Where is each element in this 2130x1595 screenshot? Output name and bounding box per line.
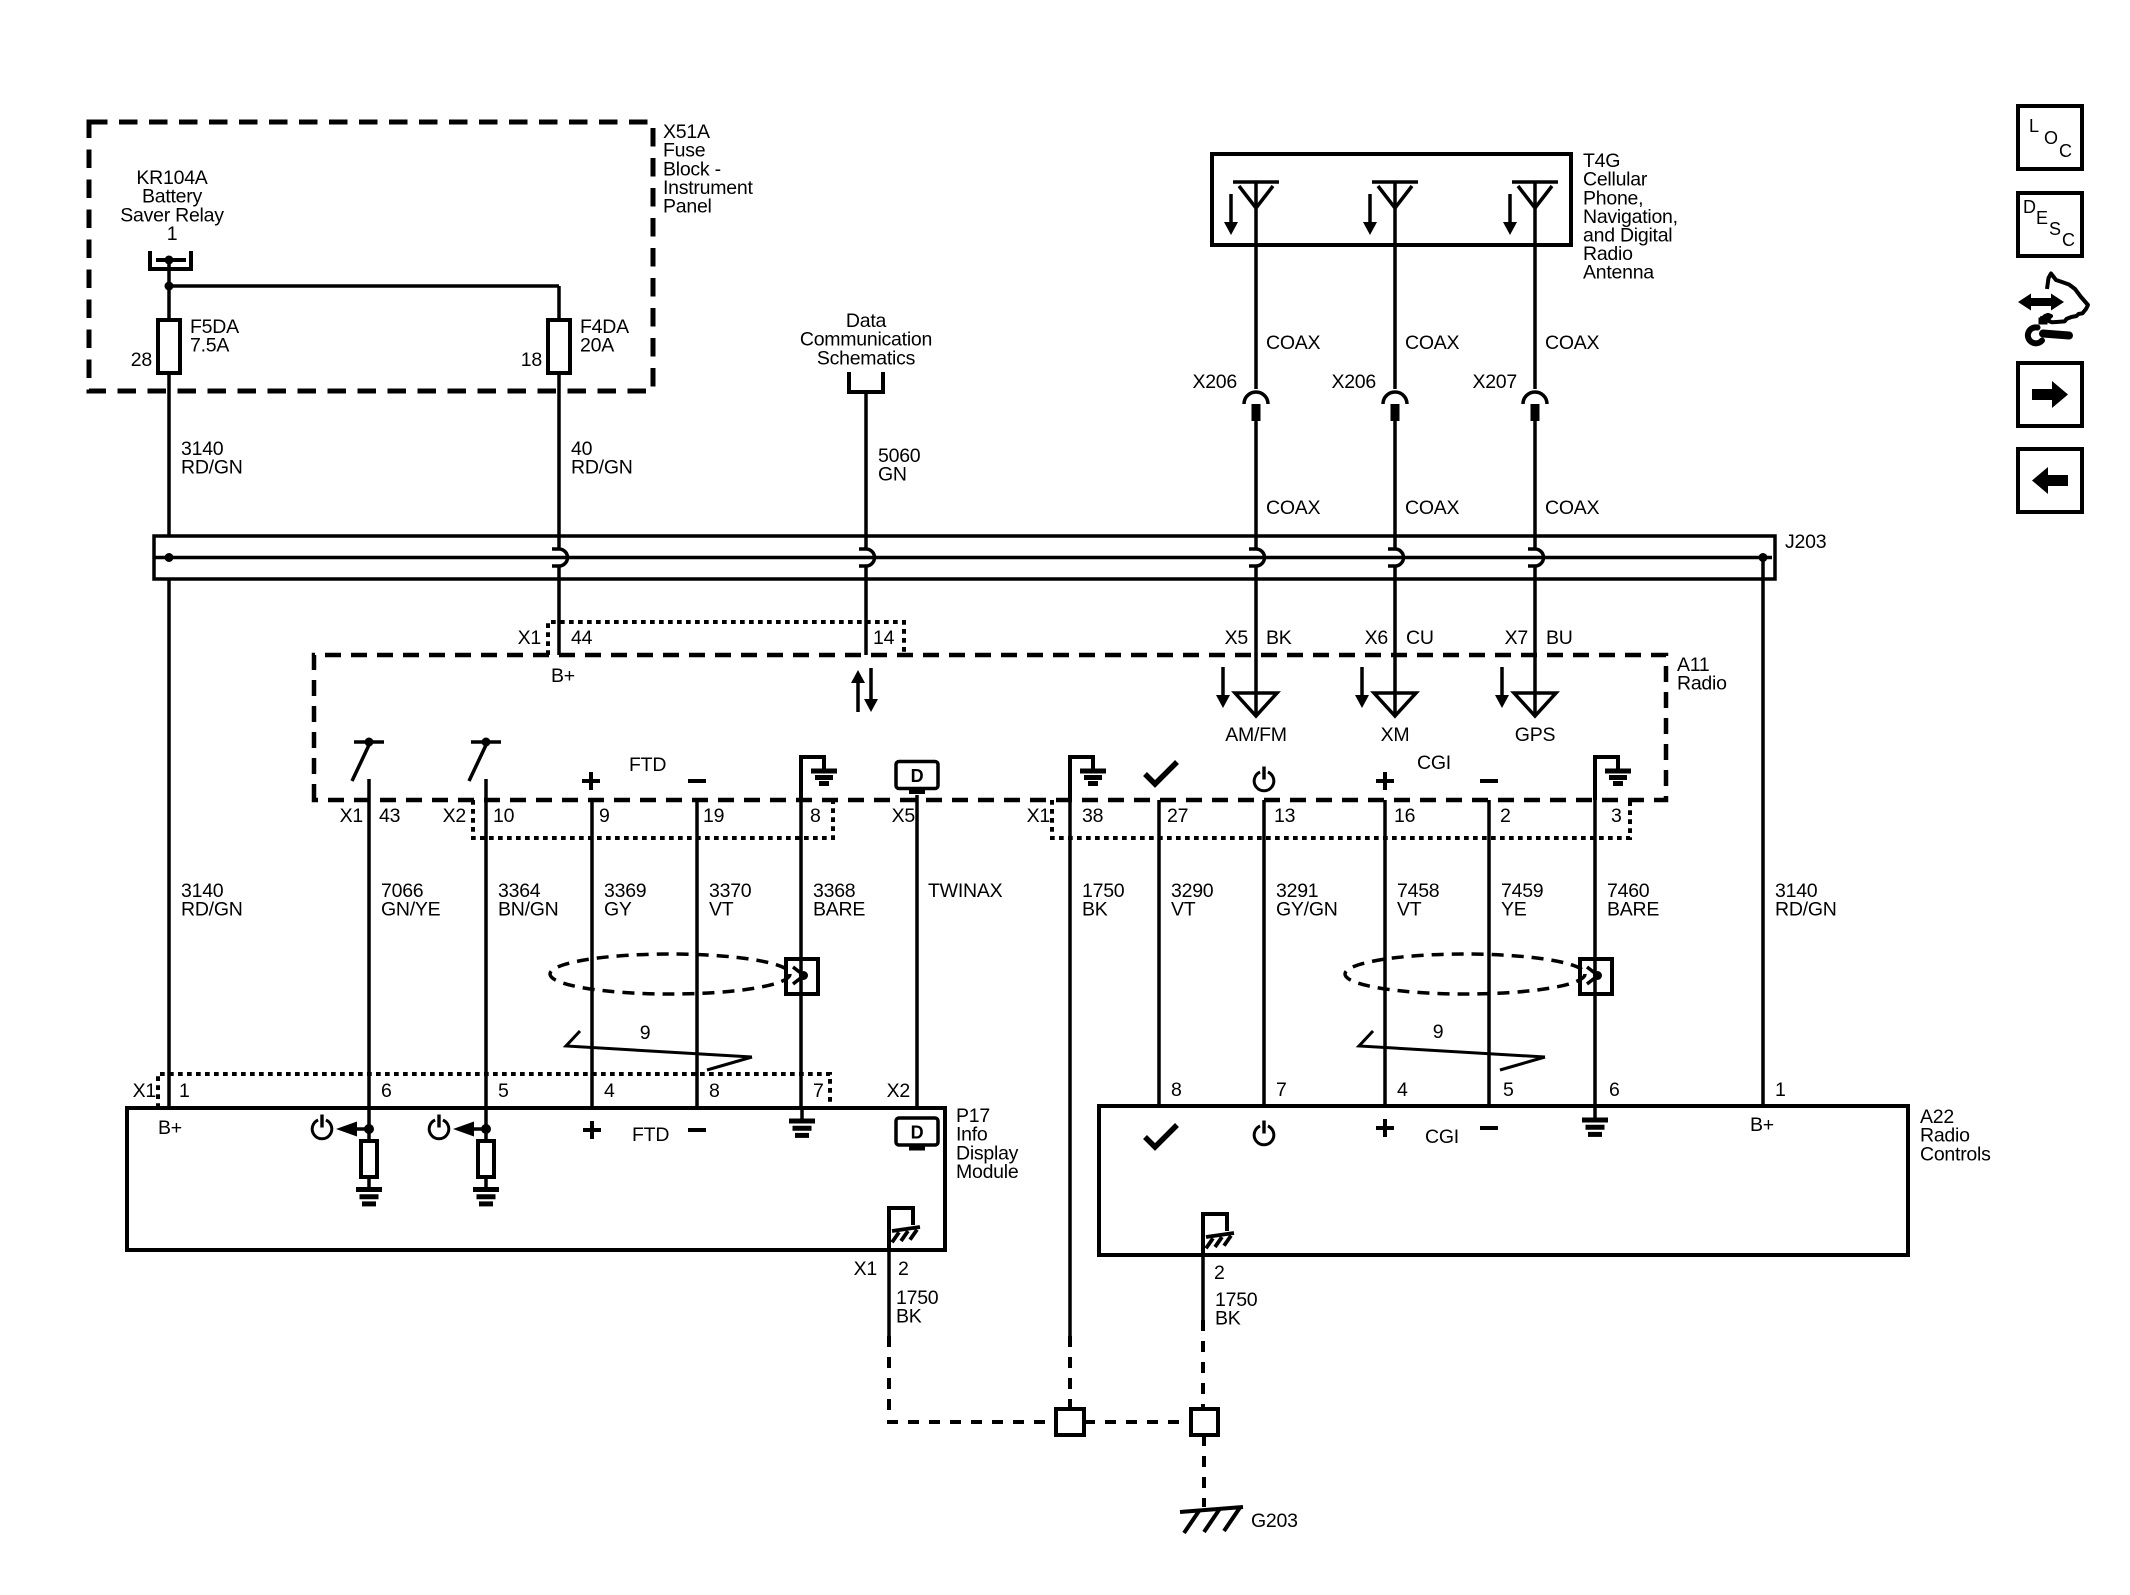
svg-text:16: 16 [1394,805,1415,827]
svg-text:GPS: GPS [1515,724,1556,746]
wire 3140 RD/GN J203 to P17 B+ [167,579,171,1108]
pin 6 label A22 [1609,1079,1620,1101]
svg-text:Controls: Controls [1920,1143,1991,1165]
fuse F5DA 7.5A [158,316,239,373]
GPS down-arrow [1495,667,1509,708]
antenna symbol 3 in T4G [1512,182,1558,208]
svg-text:O: O [2044,128,2058,148]
svg-text:1: 1 [167,223,178,245]
wire hop over J203 at coax3 [1528,549,1544,566]
svg-text:YE: YE [1501,899,1527,921]
svg-text:X5: X5 [892,805,916,827]
connector X206 label 1 [1192,371,1237,393]
pin 2 label A11 [1500,805,1511,827]
wire J203 to A11 pin 44 [557,536,561,655]
antenna 2 signal down-arrow [1363,194,1377,235]
label COAX upper 2 [1405,332,1460,354]
label Data Communication Schematics [800,310,932,369]
wire J203 to A11 pin 14 [864,536,868,655]
svg-text:Radio: Radio [1677,673,1727,695]
power symbol A22 pin 7 [1254,1121,1274,1145]
pin 27 label [1167,805,1188,827]
minus symbol FTD at A11 pin 19 [688,779,706,783]
label 3291 GY/GN [1276,880,1338,921]
node J203 left junction [165,553,174,562]
label 7066 GN/YE [381,880,441,921]
svg-text:6: 6 [1609,1079,1620,1101]
svg-text:10: 10 [493,805,515,827]
svg-text:S: S [2049,219,2061,239]
power symbol at A11 pin 13 [1254,767,1274,791]
label A11 Radio [1677,654,1727,695]
AM/FM down-arrow [1216,667,1230,708]
svg-text:D: D [911,1123,924,1143]
wire hop over J203 at 40 RD/GN [552,549,568,566]
label CGI in A11 [1417,752,1451,774]
label 3369 GY [604,880,646,921]
label CGI A22 [1425,1126,1459,1148]
arrow into pin 6 wire [336,1122,374,1137]
arrow into pin 5 wire [453,1122,491,1137]
twist count 9 FTD [566,1022,752,1070]
svg-text:COAX: COAX [1545,332,1600,354]
svg-text:4: 4 [604,1080,615,1102]
XM antenna input symbol [1374,693,1416,716]
svg-text:X207: X207 [1472,371,1517,393]
label GPS [1515,724,1556,746]
svg-text:CGI: CGI [1417,752,1451,774]
svg-text:J203: J203 [1785,531,1826,553]
icon button back arrow [2018,449,2082,512]
label FTD P17 [632,1124,669,1146]
check symbol at A11 pin 27 [1145,762,1177,784]
svg-text:X1: X1 [854,1258,877,1280]
pin 3 label A11 [1611,805,1622,827]
label X7 BU [1505,627,1573,649]
svg-text:RD/GN: RD/GN [1775,899,1837,921]
svg-text:TWINAX: TWINAX [928,880,1003,902]
wire resistor to ground pin 6 [367,1177,371,1189]
wire 7460 BARE [1593,800,1597,1106]
svg-text:XM: XM [1381,724,1410,746]
svg-text:Panel: Panel [663,196,712,218]
svg-text:B+: B+ [1750,1114,1774,1136]
minus symbol CGI at A11 pin 2 [1480,779,1498,783]
pin 1 label A22 [1775,1079,1786,1101]
coax wire J203 to GPS antenna input [1533,536,1537,716]
label B+ A22 [1750,1114,1774,1136]
svg-text:18: 18 [521,349,542,371]
svg-text:38: 38 [1082,805,1103,827]
svg-text:5: 5 [498,1080,509,1102]
label P17 Info Display Module [956,1105,1019,1183]
svg-text:VT: VT [1397,899,1422,921]
label J203 [1785,531,1826,553]
svg-text:X1: X1 [340,805,363,827]
label A22 Radio Controls [1920,1106,1991,1165]
label 1750 BK below A22 [1215,1289,1258,1330]
svg-text:COAX: COAX [1405,497,1460,519]
svg-text:CGI: CGI [1425,1126,1459,1148]
svg-text:6: 6 [381,1080,392,1102]
ground under resistor pin 6 [356,1190,382,1204]
label 7460 BARE [1607,880,1659,921]
pin 7 label P17 [813,1080,824,1102]
label FTD in A11 [629,754,666,776]
pin 7 label A22 [1276,1079,1287,1101]
svg-text:Module: Module [956,1161,1018,1183]
label X1 pin 43 [340,805,401,827]
svg-text:VT: VT [1171,899,1196,921]
svg-text:7.5A: 7.5A [190,335,229,357]
wire J203 to A22 B+ (3140 RD/GN) [1761,558,1765,1107]
icon button LOC [2018,106,2082,169]
chassis ground inside P17 [889,1208,920,1250]
svg-text:5: 5 [1503,1079,1514,1101]
label X2 P17 [887,1080,910,1102]
pin 5 label A22 [1503,1079,1514,1101]
svg-text:RD/GN: RD/GN [181,457,243,479]
radio A11 dashed outline [314,655,1666,800]
coax wire connector to J203 1 [1254,421,1258,536]
coax wire connector to J203 3 [1533,421,1537,536]
wire 3290 VT [1157,800,1161,1106]
wire pin 6 stub A22 [1593,1106,1597,1119]
antenna 3 signal down-arrow [1503,194,1517,235]
shield termination box FTD [786,959,818,994]
svg-text:14: 14 [873,627,895,649]
coax wire antenna 1 to connector [1254,182,1258,389]
minus symbol FTD P17 [688,1128,706,1132]
label X1 2 below P17 [854,1258,909,1280]
svg-text:G203: G203 [1251,1510,1298,1532]
connector X206 symbol 2 [1383,392,1407,421]
wire junction to F5DA [167,286,171,320]
wire pin 5 to resistor [484,1108,488,1141]
svg-text:13: 13 [1274,805,1295,827]
label 5060 GN [878,445,921,486]
label AM/FM [1225,724,1287,746]
svg-text:X1: X1 [1027,805,1050,827]
ground symbol at A11 pin 8 [801,757,837,800]
power symbol P17 pin 6 [312,1115,332,1139]
chassis ground inside A22 [1203,1214,1234,1255]
label 7459 YE [1501,880,1543,921]
dashed wire splice S2 to G203 [1202,1435,1206,1507]
check symbol A22 pin 8 [1145,1125,1177,1147]
svg-text:X2: X2 [443,805,466,827]
icon button next arrow [2018,363,2082,426]
pin 1 label P17 [179,1080,190,1102]
label X1 P17 [133,1080,156,1102]
svg-text:X6: X6 [1365,627,1388,649]
label COAX upper 1 [1266,332,1321,354]
svg-text:C: C [2062,230,2075,250]
antenna symbol 2 in T4G [1372,182,1418,208]
label 1750 BK below P17 [896,1287,939,1328]
svg-text:L: L [2029,116,2039,136]
svg-text:Antenna: Antenna [1583,262,1654,284]
switch symbol at A11 pin 10 [469,738,501,782]
svg-text:BU: BU [1546,627,1573,649]
coax wire antenna 2 to connector [1393,182,1397,389]
pin 4 label A22 [1397,1079,1408,1101]
label 3140 RD/GN lower left [181,880,243,921]
wire 7458 VT [1383,800,1387,1106]
pin 8 label A11 [810,805,821,827]
twisted pair ellipse CGI [1345,954,1585,994]
GPS antenna input symbol [1514,693,1556,716]
pin 9 label [599,805,610,827]
wire resistor to ground pin 5 [484,1177,488,1189]
svg-text:BK: BK [896,1306,922,1328]
ground at P17 pin 7 [789,1121,815,1135]
svg-text:B+: B+ [158,1117,182,1139]
svg-text:2: 2 [1500,805,1511,827]
plus symbol CGI A22 [1376,1119,1394,1137]
ground G203 symbol [1180,1507,1243,1533]
relay KR104A contact [150,251,191,269]
pin 14 label [873,627,895,649]
pin 19 label [703,805,724,827]
label 1750 BK left [1082,880,1125,921]
wire 3369 GY [590,800,594,1108]
fuse F4DA 20A [548,316,629,373]
svg-text:9: 9 [640,1022,651,1044]
svg-text:X206: X206 [1192,371,1237,393]
ground symbol at A11 pin 3 [1595,757,1631,800]
wire hop over J203 at 5060 GN [859,549,875,566]
svg-text:RD/GN: RD/GN [181,899,243,921]
svg-text:D: D [2023,197,2036,217]
wire 7459 YE [1487,800,1491,1106]
label X5 bottom [892,805,916,827]
svg-text:7: 7 [1276,1079,1287,1101]
svg-text:VT: VT [709,899,734,921]
label X1 pin 38 [1027,805,1104,827]
pin 6 label P17 [381,1080,392,1102]
pin 44 label [571,627,593,649]
antenna module T4G box [1212,154,1571,245]
svg-text:20A: 20A [580,335,614,357]
wire 1750 BK from P17 [889,1250,1056,1422]
svg-text:19: 19 [703,805,724,827]
pin 16 label [1394,805,1415,827]
label COAX upper 3 [1545,332,1600,354]
plus symbol FTD P17 [583,1121,601,1139]
svg-text:FTD: FTD [632,1124,669,1146]
shield termination box CGI [1580,959,1612,994]
label COAX lower 2 [1405,497,1460,519]
wire 40 RD/GN fuse F4DA to J203 [557,373,561,536]
plus symbol CGI at A11 pin 16 [1376,772,1394,790]
XM down-arrow [1355,667,1369,708]
ground under resistor pin 5 [473,1190,499,1204]
connector X207 symbol [1523,392,1547,421]
label B+ P17 [158,1117,182,1139]
connector X207 label [1472,371,1517,393]
splice S1 [1056,1409,1084,1435]
fuse block X51A dashed outline [89,122,653,391]
svg-text:1: 1 [1775,1079,1786,1101]
label 3368 BARE [813,880,865,921]
coax wire J203 to AM/FM antenna input [1254,536,1258,716]
svg-text:1: 1 [179,1080,190,1102]
label 40 RD/GN [571,438,633,479]
connector strip A11 X1 bottom [1052,800,1630,838]
svg-text:X1: X1 [518,627,541,649]
label TWINAX [928,880,1003,902]
wire relay to junction [167,260,171,286]
AM/FM antenna input symbol [1235,693,1277,716]
wire 3140 RD/GN fuse F5DA to J203 [167,373,171,536]
label T4G Cellular Phone Navigation and Digital Radio Antenna [1583,150,1678,284]
svg-text:43: 43 [379,805,400,827]
svg-text:FTD: FTD [629,754,666,776]
wire TWINAX [915,795,919,1108]
wire 3368 BARE [799,800,803,1108]
svg-text:X2: X2 [887,1080,910,1102]
node J203 right junction [1759,553,1768,562]
dashed wire splice S1 to splice S2 [1084,1420,1191,1424]
svg-text:BK: BK [1266,627,1292,649]
label 3290 VT [1171,880,1214,921]
pin 2 label below A22 [1214,1262,1225,1284]
pin 18 label [521,349,542,371]
svg-text:8: 8 [810,805,821,827]
harness J203 internal wire [154,556,1772,560]
svg-text:GN/YE: GN/YE [381,899,441,921]
wire 1750 BK from A11 pin 38 [1068,800,1072,1409]
label X51A Fuse Block - Instrument Panel [663,121,753,217]
svg-text:2: 2 [898,1258,909,1280]
connector strip A11 X2 bottom [473,800,833,838]
ground at A22 pin 6 [1582,1120,1608,1134]
svg-text:X5: X5 [1225,627,1249,649]
wire hop over J203 at coax2 [1388,549,1404,566]
antenna symbol 1 in T4G [1233,182,1279,208]
harness J203 outline [154,536,1775,579]
svg-text:BARE: BARE [1607,899,1659,921]
wire pin 7 stub [800,1108,804,1120]
wire 3291 GY/GN [1262,800,1266,1106]
svg-text:X206: X206 [1331,371,1376,393]
twisted pair ellipse FTD [550,954,790,994]
svg-text:E: E [2036,208,2048,228]
pin 5 label P17 [498,1080,509,1102]
minus symbol CGI A22 [1480,1126,1498,1130]
display icon P17 X2 [896,1118,938,1149]
off-page connector Data Communication [849,372,883,392]
label XM [1381,724,1410,746]
ground symbol at A11 pin 38 [1070,757,1106,800]
label B+ A11 [551,665,575,687]
svg-text:GY/GN: GY/GN [1276,899,1338,921]
svg-text:RD/GN: RD/GN [571,457,633,479]
svg-text:X7: X7 [1505,627,1528,649]
svg-text:9: 9 [1433,1021,1444,1043]
wire 3370 VT [695,800,699,1108]
switch symbol at A11 pin 43 [352,738,384,782]
label COAX lower 1 [1266,497,1321,519]
svg-text:44: 44 [571,627,593,649]
serial data up/down arrows at pin 14 [851,668,878,712]
svg-text:BK: BK [1082,899,1108,921]
svg-text:BN/GN: BN/GN [498,899,559,921]
power symbol P17 pin 5 [429,1115,449,1139]
svg-text:COAX: COAX [1266,332,1321,354]
label X5 BK [1225,627,1292,649]
pin 8 label A22 [1171,1079,1182,1101]
coax wire J203 to XM antenna input [1393,536,1397,716]
svg-text:27: 27 [1167,805,1188,827]
wire 5060 GN to J203 [864,392,868,536]
icon button DESC [2018,193,2082,256]
svg-text:8: 8 [709,1080,720,1102]
pin 4 label P17 [604,1080,615,1102]
svg-text:GN: GN [878,464,907,486]
label X1 top [518,627,541,649]
icon double-arrow with part and wrench [2018,274,2088,344]
svg-text:Schematics: Schematics [817,347,916,369]
splice S2 [1191,1409,1218,1435]
relay KR104A label [120,167,224,245]
label G203 [1251,1510,1298,1532]
label 3370 VT [709,880,752,921]
module A22 box [1099,1106,1908,1255]
label 3140 RD/GN right [1775,880,1837,921]
svg-text:4: 4 [1397,1079,1408,1101]
svg-text:COAX: COAX [1545,497,1600,519]
svg-text:2: 2 [1214,1262,1225,1284]
label 3364 BN/GN [498,880,559,921]
label 7458 VT [1397,880,1439,921]
svg-text:B+: B+ [551,665,575,687]
svg-text:CU: CU [1406,627,1434,649]
twist count 9 CGI [1359,1021,1545,1070]
pin 13 label [1274,805,1295,827]
antenna 1 signal down-arrow [1224,194,1238,235]
svg-text:BARE: BARE [813,899,865,921]
svg-text:D: D [911,766,924,786]
svg-text:3: 3 [1611,805,1622,827]
node junction below relay [165,282,174,291]
label 3140 RD/GN [181,438,243,479]
svg-text:GY: GY [604,899,632,921]
plus symbol FTD at A11 pin 9 [582,772,600,790]
module P17 box [127,1108,945,1250]
connector strip P17 X1 [158,1074,830,1108]
coax wire antenna 3 to connector [1533,182,1537,389]
label X2 pin 10 [443,805,515,827]
svg-text:9: 9 [599,805,610,827]
svg-text:7: 7 [813,1080,824,1102]
svg-text:28: 28 [131,349,152,371]
wire hop over J203 at coax1 [1249,549,1265,566]
wire pin 6 to resistor [367,1108,371,1141]
svg-text:X1: X1 [133,1080,156,1102]
wire 1750 BK from A22 [1201,1255,1205,1409]
connector X206 label 2 [1331,371,1376,393]
svg-text:AM/FM: AM/FM [1225,724,1287,746]
svg-text:COAX: COAX [1405,332,1460,354]
svg-text:COAX: COAX [1266,497,1321,519]
wire 3364 BN/GN [484,779,488,1108]
label X6 CU [1365,627,1434,649]
wire junction to F4DA branch [169,286,559,320]
wire 7066 GN/YE [367,779,371,1108]
connector X206 symbol 1 [1244,392,1268,421]
